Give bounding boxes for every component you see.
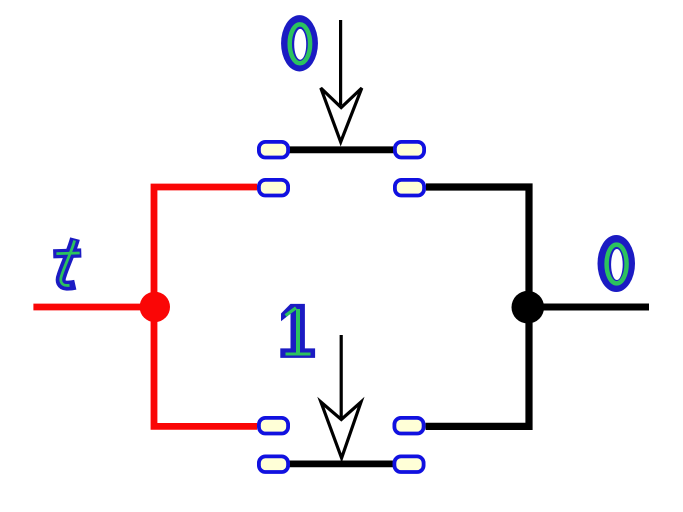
switch S2 terminal pin: lower-left pill xyxy=(259,456,288,472)
switch S1 terminal pin: upper-left pill xyxy=(259,142,288,158)
wire: black output segment to right edge xyxy=(528,304,649,311)
switch S2 terminal pin: upper-left pill xyxy=(259,418,288,434)
switch S1 terminal pin: lower-left pill xyxy=(259,180,288,196)
control arrow for switch S1: open arrowhead xyxy=(321,88,362,142)
wire: red branch from junction down and right to switch S2 upper-left terminal xyxy=(154,307,257,426)
switch S2 terminal pin: upper-right pill xyxy=(394,418,423,434)
switch S1: closed contact bar (upper path) xyxy=(288,146,395,153)
label 0 (control value of switch S1, green digit with blue outline) xyxy=(281,15,318,71)
control arrow for switch S1: shaft xyxy=(339,20,342,105)
label 1 (control value of switch S2, green digit with blue outline) xyxy=(280,304,315,358)
wire: black from switch S1 lower-right terminal right and down to output junction xyxy=(426,187,529,307)
control arrow for switch S2: open arrowhead xyxy=(321,402,361,458)
control arrow for switch S2: shaft xyxy=(340,335,343,419)
switch S2 terminal pin: lower-right pill xyxy=(394,456,423,472)
junction: black output node xyxy=(512,291,545,324)
wire: black from switch S2 upper-right terminal right and up to output junction xyxy=(426,307,529,426)
switch S1 terminal pin: upper-right pill xyxy=(395,142,424,158)
label 0 (output value, green digit with blue outline) xyxy=(598,235,636,292)
junction: red node t xyxy=(140,292,170,322)
wire: red branch from junction up and right to switch S1 lower-left terminal xyxy=(154,187,257,307)
switch S1 terminal pin: lower-right pill xyxy=(395,180,424,196)
wire: red input segment (node t) from left edge to junction xyxy=(33,304,154,311)
label t (net name, blue outline with green core) xyxy=(53,239,81,286)
switch S2: closed contact bar (lower path) xyxy=(288,460,394,467)
